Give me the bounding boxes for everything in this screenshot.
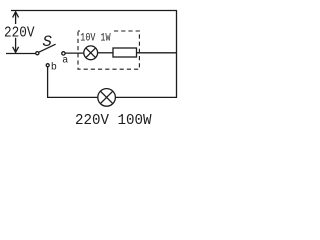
voltage arrow 220V [13, 12, 19, 53]
switch S left contact [36, 52, 39, 55]
svg-text:220V: 220V [4, 25, 35, 42]
svg-text:a: a [62, 56, 68, 67]
wire bottom right [115, 96, 177, 98]
label mask over dashed top edge [80, 29, 114, 34]
svg-text:b: b [51, 62, 57, 74]
wire from b down [47, 67, 49, 98]
wire lamp L1 to resistor [98, 52, 113, 54]
svg-text:10V 1W: 10V 1W [80, 32, 111, 44]
wire resistor to right rail [137, 52, 178, 54]
svg-text:S: S [43, 33, 53, 51]
dashed box [78, 31, 139, 69]
lamp L1 cross [86, 48, 96, 58]
lamp L2 cross [100, 91, 112, 103]
switch S blade [39, 44, 56, 52]
lamp L2 circle [98, 89, 116, 107]
svg-text:220V 100W: 220V 100W [75, 112, 152, 129]
lamp L1 circle [84, 46, 98, 60]
wire bottom left [47, 96, 98, 98]
contact b [46, 64, 49, 67]
wire top [11, 10, 177, 12]
wire branch from a to lamp L1 [65, 52, 84, 54]
wire right rail [176, 11, 178, 98]
switch S right contact (point a) [62, 52, 65, 55]
resistor R [113, 48, 137, 57]
wire source lower-left [6, 53, 36, 55]
